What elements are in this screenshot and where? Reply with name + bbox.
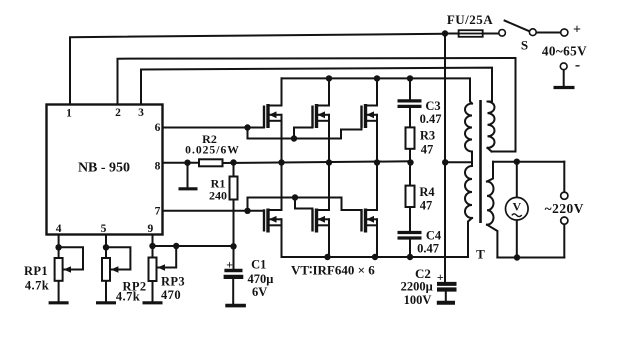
svg-text:5: 5 — [101, 223, 107, 235]
svg-text:C3: C3 — [425, 99, 440, 113]
svg-text:4.7k: 4.7k — [25, 279, 49, 293]
svg-text:4.7k: 4.7k — [116, 290, 140, 304]
svg-text:T: T — [476, 247, 485, 262]
svg-text:RP1: RP1 — [24, 264, 48, 278]
svg-text:6: 6 — [155, 122, 161, 134]
svg-text:S: S — [521, 38, 528, 53]
svg-text:3: 3 — [138, 107, 144, 119]
svg-text:47: 47 — [420, 199, 433, 213]
svg-text:470μ: 470μ — [247, 272, 273, 286]
svg-text:0.47: 0.47 — [420, 112, 442, 126]
svg-text:0.47: 0.47 — [417, 242, 439, 256]
svg-text:240: 240 — [209, 189, 227, 203]
svg-text:RP3: RP3 — [161, 275, 185, 289]
svg-text:+: + — [226, 258, 233, 272]
svg-text:0.025/6W: 0.025/6W — [185, 144, 240, 157]
svg-text:-: - — [575, 57, 580, 74]
svg-text:6V: 6V — [252, 285, 267, 299]
svg-text:4: 4 — [56, 223, 62, 235]
svg-text:+: + — [437, 270, 444, 284]
svg-text:40~65V: 40~65V — [542, 44, 587, 59]
svg-text:V: V — [512, 200, 521, 214]
svg-text:VT∶IRF640 × 6: VT∶IRF640 × 6 — [291, 263, 375, 278]
svg-text:100V: 100V — [404, 293, 432, 307]
svg-text:2: 2 — [115, 107, 121, 119]
svg-text:FU/25A: FU/25A — [447, 12, 493, 27]
svg-text:1: 1 — [66, 108, 72, 120]
svg-text:7: 7 — [155, 206, 161, 218]
svg-text:R4: R4 — [419, 185, 435, 199]
svg-text:47: 47 — [421, 143, 434, 157]
svg-text:R3: R3 — [420, 129, 435, 143]
svg-text:8: 8 — [155, 161, 161, 173]
svg-text:+: + — [573, 23, 581, 38]
svg-text:~220V: ~220V — [545, 201, 584, 216]
svg-text:C4: C4 — [426, 229, 442, 243]
svg-text:2200μ: 2200μ — [401, 280, 433, 294]
svg-text:C1: C1 — [251, 258, 266, 272]
svg-text:9: 9 — [148, 223, 154, 235]
svg-text:470: 470 — [161, 288, 181, 302]
svg-text:NB - 950: NB - 950 — [78, 161, 130, 176]
